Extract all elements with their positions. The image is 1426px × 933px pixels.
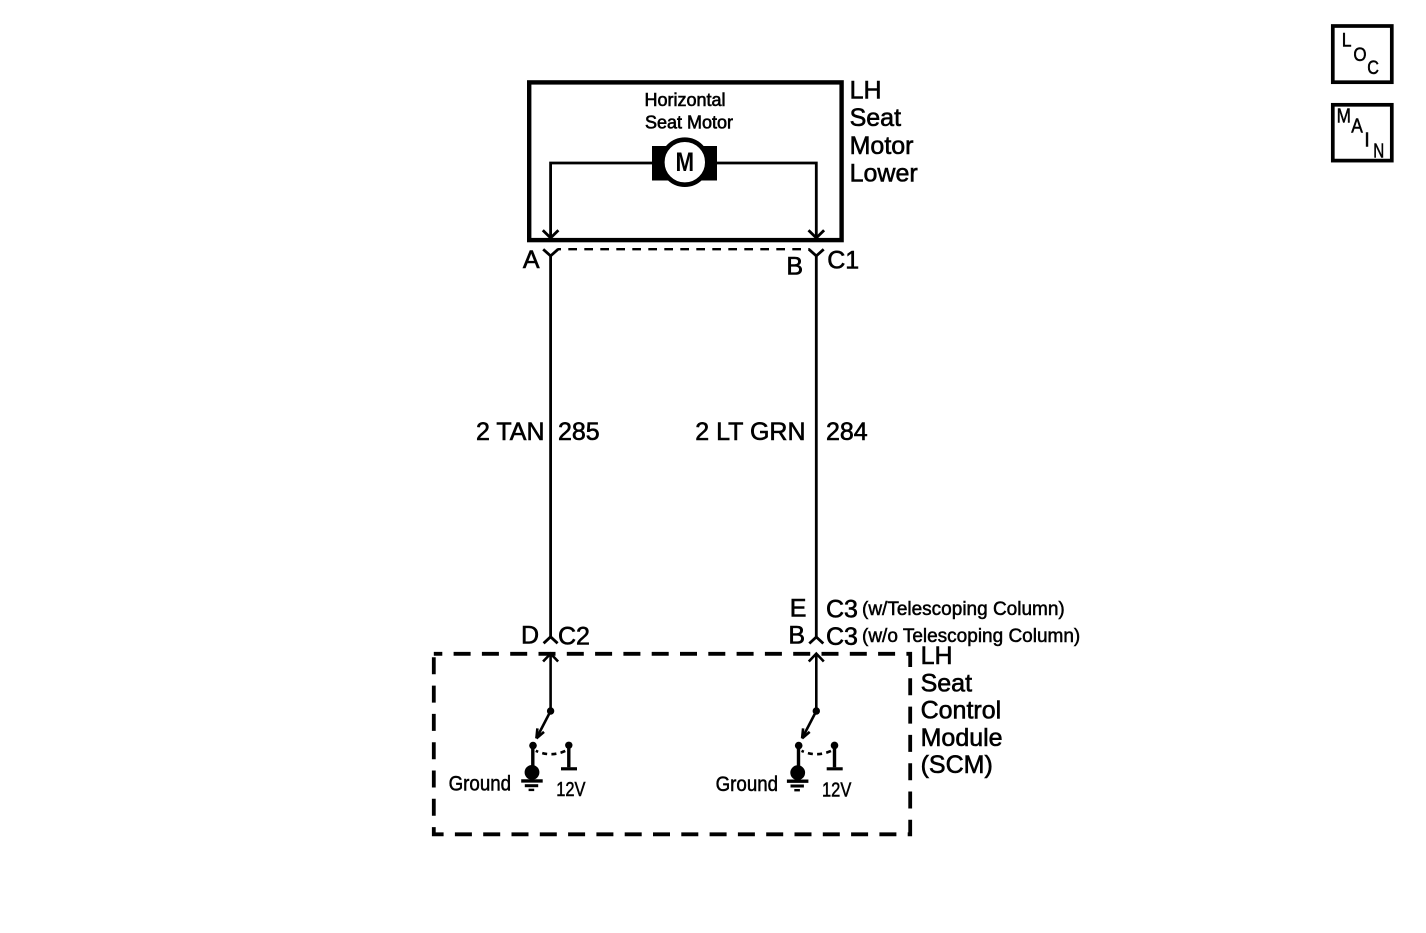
- svg-text:284: 284: [826, 418, 868, 446]
- svg-text:12V: 12V: [822, 779, 852, 801]
- svg-text:Control: Control: [921, 697, 1002, 725]
- svg-text:285: 285: [558, 418, 600, 446]
- svg-text:M: M: [676, 147, 695, 177]
- svg-text:Seat: Seat: [921, 669, 972, 697]
- svg-text:LH: LH: [850, 77, 882, 105]
- svg-text:(w/o Telescoping Column): (w/o Telescoping Column): [862, 626, 1080, 647]
- svg-text:C3: C3: [826, 596, 858, 624]
- svg-text:Seat Motor: Seat Motor: [645, 113, 733, 133]
- svg-text:LH: LH: [921, 642, 953, 670]
- svg-text:D: D: [521, 622, 539, 650]
- svg-text:Seat: Seat: [850, 104, 901, 132]
- svg-text:O: O: [1353, 45, 1366, 66]
- svg-text:2 TAN: 2 TAN: [476, 418, 545, 446]
- svg-text:I: I: [1364, 130, 1370, 152]
- svg-text:A: A: [523, 246, 540, 274]
- svg-text:L: L: [1342, 31, 1352, 52]
- svg-text:C: C: [1367, 58, 1379, 79]
- svg-text:Motor: Motor: [850, 132, 914, 160]
- svg-text:E: E: [790, 595, 807, 623]
- svg-text:Horizontal: Horizontal: [644, 90, 725, 110]
- svg-text:B: B: [786, 253, 803, 281]
- svg-text:A: A: [1351, 116, 1363, 138]
- svg-text:2 LT GRN: 2 LT GRN: [695, 418, 805, 446]
- svg-text:C3: C3: [826, 623, 858, 651]
- svg-text:M: M: [1337, 106, 1351, 128]
- svg-text:(SCM): (SCM): [921, 751, 993, 779]
- svg-text:N: N: [1373, 141, 1384, 163]
- svg-text:C2: C2: [558, 623, 590, 651]
- svg-text:(w/Telescoping Column): (w/Telescoping Column): [862, 599, 1065, 620]
- svg-text:12V: 12V: [556, 779, 586, 801]
- svg-text:B: B: [788, 622, 805, 650]
- svg-text:C1: C1: [827, 247, 859, 275]
- svg-text:Module: Module: [921, 724, 1003, 752]
- svg-text:Lower: Lower: [850, 159, 918, 187]
- svg-text:Ground: Ground: [449, 773, 512, 796]
- svg-text:Ground: Ground: [716, 773, 779, 796]
